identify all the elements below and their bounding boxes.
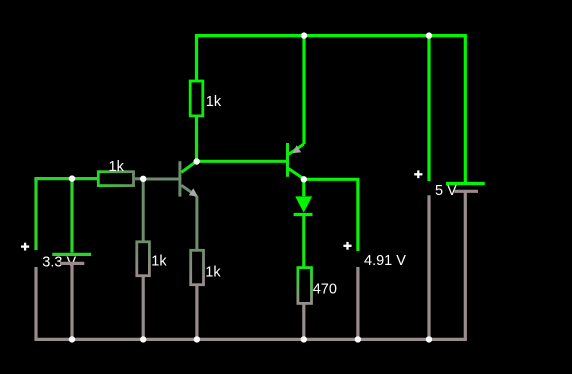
wire: diode cathode to R5	[302, 215, 305, 268]
svg-text:1k: 1k	[151, 254, 167, 270]
voltmeter probe 5V reading	[435, 183, 457, 199]
resistor R5 470 body	[298, 268, 312, 304]
battery B1 bottom lead	[70, 263, 73, 339]
wire: ground rail	[36, 338, 465, 341]
svg-text:1k: 1k	[205, 265, 221, 281]
node dot: ground rail / R5	[301, 336, 307, 342]
node dot: Q1 base / R2 / R3 junction	[140, 176, 146, 182]
diode D1 cathode bar	[294, 213, 313, 216]
wire: Q2 emitter lead up to rail	[302, 36, 305, 144]
resistor R1 bottom lead wire	[195, 116, 198, 161]
voltmeter probe 5V: bottom lead (gray)	[427, 195, 430, 339]
transistor Q2 emitter arrowhead	[292, 145, 301, 153]
battery B2 negative plate (short)	[454, 190, 478, 193]
wire: R5 bottom lead to ground rail	[302, 304, 305, 339]
wire: R2 to base node	[135, 177, 143, 180]
transistor Q1 emitter arrowhead	[189, 188, 198, 196]
resistor R4 1k body	[191, 250, 204, 284]
svg-text:470: 470	[313, 281, 337, 297]
node dot: ground rail / R4	[194, 336, 200, 342]
wire: top 5V supply rail	[197, 34, 466, 37]
diode D1 triangle	[295, 196, 312, 212]
voltmeter probe 5V: plus sign	[414, 170, 422, 178]
transistor Q1 base lead	[143, 178, 181, 181]
voltmeter probe input: plus sign	[21, 243, 29, 251]
transistor Q1 emitter diagonal	[181, 185, 197, 196]
voltmeter probe input: top lead (green)	[34, 179, 37, 250]
voltmeter probe 5V: top lead (green)	[427, 36, 430, 181]
node dot: top rail / 5V probe	[426, 32, 432, 38]
node dot: ground rail / battery B1	[69, 336, 75, 342]
transistor Q2 (PNP) base bar	[286, 143, 289, 177]
wire: Q1 emitter lead down	[195, 196, 198, 250]
node dot: ground rail / 5V probe	[426, 336, 432, 342]
transistor Q1 collector diagonal	[181, 161, 196, 172]
battery B1 negative plate (short)	[60, 262, 84, 265]
transistor Q1 (NPN) base bar	[178, 161, 181, 196]
svg-text:5 V: 5 V	[435, 183, 457, 199]
resistor R5 value label 470	[313, 281, 337, 297]
transistor Q2 emitter diagonal (upper)	[288, 144, 304, 154]
node dot: top rail / Q2 emitter	[301, 32, 307, 38]
svg-text:1k: 1k	[206, 94, 222, 110]
svg-text:4.91 V: 4.91 V	[364, 253, 406, 269]
wire: R3 bottom lead to ground rail	[142, 276, 145, 339]
voltmeter probe output: bottom lead (gray)	[356, 267, 359, 339]
voltmeter probe output: plus sign	[343, 242, 351, 250]
resistor R4 value label 1k	[205, 265, 221, 281]
battery B2 positive plate (long)	[446, 182, 485, 185]
wire: Q2 collector to output probe	[304, 178, 358, 181]
node dot: Q2 collector junction	[301, 176, 307, 182]
voltmeter probe output reading 4.91 V	[364, 253, 406, 269]
resistor R3 1k body	[137, 242, 150, 276]
battery B2 bottom lead	[464, 191, 467, 339]
node dot: input node / battery junction	[69, 175, 75, 181]
battery B2 5V top lead	[464, 36, 467, 182]
resistor R1 1k top lead wire	[195, 36, 198, 81]
resistor R1 1k body	[190, 81, 203, 116]
transistor Q2 collector diagonal (lower)	[288, 169, 303, 179]
battery B1 positive plate (long)	[52, 253, 91, 256]
resistor R2 value label 1k	[109, 159, 125, 175]
resistor R1 value label 1k	[206, 94, 222, 110]
voltmeter probe input reading 3.3 V	[42, 255, 76, 271]
resistor R3 value label 1k	[151, 254, 167, 270]
voltmeter probe input: bottom lead (gray)	[34, 267, 37, 339]
battery B1 3.3V top lead	[70, 179, 73, 253]
wire: R4 bottom lead to ground rail	[195, 285, 198, 339]
svg-text:1k: 1k	[109, 159, 125, 175]
node dot: ground rail / output probe	[355, 336, 361, 342]
diode D1 anode lead	[302, 179, 305, 196]
node dot: ground rail / R3	[140, 336, 146, 342]
resistor R2 1k body (horizontal)	[98, 172, 133, 186]
resistor R3 1k top lead	[142, 179, 145, 241]
node dot: Q1 collector / R1 junction	[194, 158, 200, 164]
wire: Q1 collector node to Q2 base	[197, 160, 287, 163]
voltmeter probe output: top lead (green)	[356, 179, 359, 251]
wire: input node horizontal (3.3V)	[36, 177, 97, 180]
